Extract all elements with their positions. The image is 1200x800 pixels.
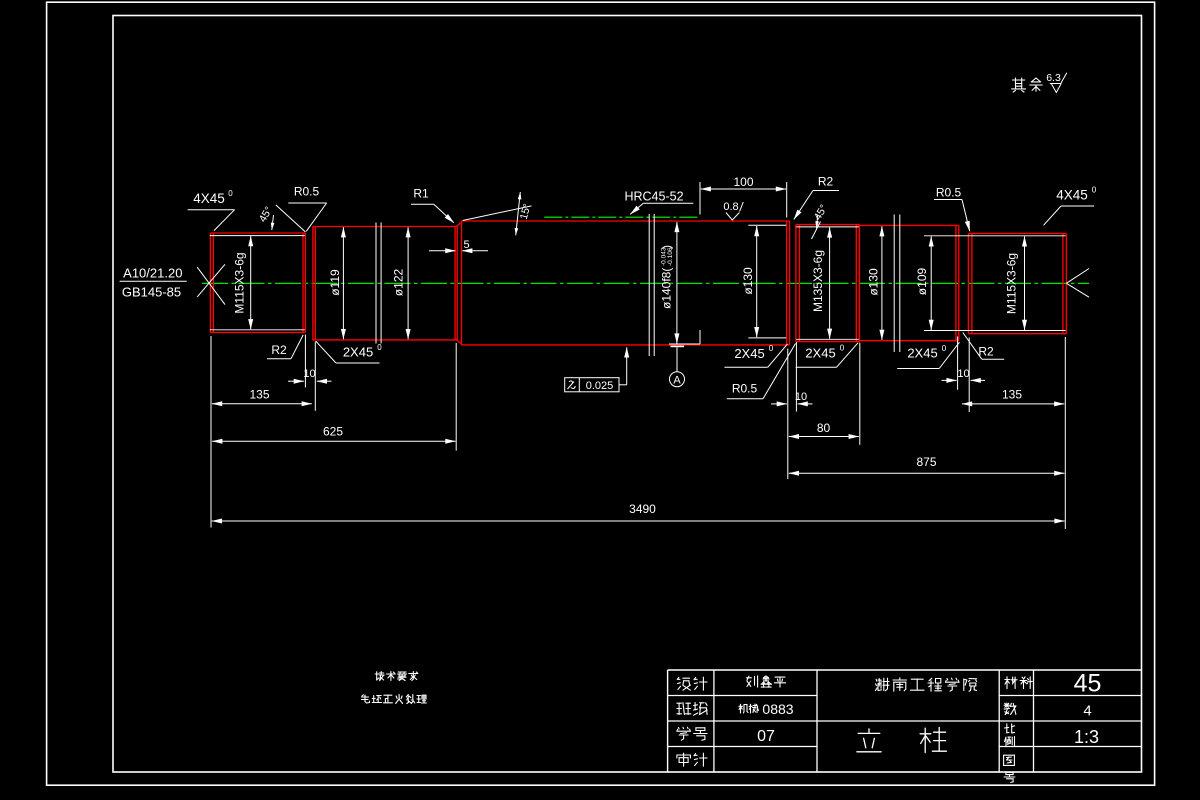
- svg-text:135: 135: [1002, 388, 1022, 402]
- dimension phi130 right: [881, 226, 883, 340]
- svg-text:R2: R2: [818, 175, 834, 189]
- svg-text:0: 0: [840, 344, 845, 353]
- dimension 10 right: [942, 379, 957, 381]
- dimension 80: [789, 436, 859, 438]
- svg-text:4X45: 4X45: [193, 191, 225, 206]
- svg-text:R0.5: R0.5: [294, 185, 320, 199]
- svg-text:80: 80: [817, 421, 831, 435]
- dimension 10 (M135 groove): [771, 403, 787, 405]
- dimension phi109: [930, 236, 932, 330]
- section: phi119/phi122: [312, 227, 314, 340]
- svg-text:0: 0: [942, 344, 947, 353]
- svg-text:5: 5: [463, 239, 469, 251]
- svg-text:M135X3-6g: M135X3-6g: [811, 250, 825, 312]
- svg-text:GB145-85: GB145-85: [122, 285, 181, 300]
- svg-text:HRC45-52: HRC45-52: [624, 190, 683, 204]
- school name: [875, 678, 889, 691]
- dimension M135X3-6g: [829, 227, 831, 338]
- dimension 135 left: [212, 403, 312, 405]
- svg-text:07: 07: [757, 728, 775, 745]
- svg-text:M115X3-6g: M115X3-6g: [233, 252, 247, 313]
- svg-text:ø140f8(: ø140f8(: [660, 268, 674, 309]
- svg-text:6.3: 6.3: [1046, 72, 1061, 84]
- 45 degree chamfer M135: [812, 222, 821, 240]
- svg-text:4X45: 4X45: [1056, 188, 1088, 203]
- general roughness symbol 其余 6.3: [1012, 78, 1026, 92]
- svg-text:0883: 0883: [762, 701, 793, 717]
- dimension M115X3-6g left: [250, 236, 252, 329]
- svg-text:R2: R2: [271, 343, 287, 357]
- break lines in phi140: [648, 214, 650, 356]
- svg-text:2X45: 2X45: [907, 346, 937, 361]
- svg-text:R0.5: R0.5: [732, 382, 758, 396]
- svg-text:ø130: ø130: [866, 268, 880, 296]
- section: thread M135X3-6g: [795, 225, 797, 342]
- dimension 100: [701, 188, 786, 190]
- section: right thread M115X3-6g: [967, 233, 969, 333]
- section: phi140 middle: [461, 221, 463, 345]
- svg-text:10: 10: [957, 368, 969, 380]
- svg-text:R1: R1: [413, 187, 429, 201]
- svg-text:R2: R2: [978, 345, 994, 359]
- title block row labels: [677, 678, 690, 691]
- designer names: [746, 676, 757, 687]
- svg-text:135: 135: [249, 388, 269, 402]
- dimension 3490: [212, 520, 1065, 522]
- dimension M115X3-6g right: [1024, 236, 1026, 330]
- svg-text:0: 0: [377, 343, 382, 352]
- dimension phi119 left: [342, 227, 344, 339]
- svg-text:M115X3-6g: M115X3-6g: [1005, 253, 1019, 314]
- svg-text:2X45: 2X45: [343, 345, 373, 360]
- datum A symbol: [699, 330, 701, 344]
- break lines in phi119/phi122: [375, 223, 377, 344]
- dimension phi122: [407, 227, 409, 339]
- section: left thread M115X3-6g: [209, 233, 211, 332]
- svg-text:10: 10: [795, 391, 807, 403]
- svg-text:2X45: 2X45: [734, 346, 764, 361]
- svg-text:10: 10: [303, 368, 315, 380]
- material cell: [1005, 677, 1017, 689]
- svg-text:): ): [660, 245, 674, 249]
- svg-text:R0.5: R0.5: [936, 186, 962, 200]
- svg-text:4: 4: [1083, 703, 1091, 720]
- dimension 5 (relief groove): [429, 250, 455, 252]
- part name 立柱: [857, 729, 881, 752]
- dimension phi140f8 with tolerance: [676, 222, 678, 344]
- section: phi130/phi119 right: [858, 225, 860, 340]
- svg-text:100: 100: [733, 175, 753, 189]
- svg-text:875: 875: [916, 455, 936, 469]
- dimension 875: [789, 472, 1065, 474]
- svg-text:0: 0: [1092, 186, 1097, 195]
- svg-text:0: 0: [228, 189, 233, 198]
- dimension phi130 (left of step): [748, 224, 786, 226]
- dimension 135 right: [962, 403, 1064, 405]
- svg-text:ø109: ø109: [915, 268, 929, 296]
- dimension 625: [212, 440, 455, 442]
- center hole arrow right end: [1066, 269, 1089, 284]
- thread minor diameter lines M115 left: [210, 235, 305, 237]
- svg-text:A: A: [673, 375, 681, 387]
- R1 fillet at phi140 left step: [457, 222, 462, 227]
- svg-text:-0.106: -0.106: [667, 247, 674, 266]
- svg-text:3490: 3490: [629, 502, 656, 516]
- svg-text:ø130: ø130: [741, 267, 755, 295]
- svg-text:0.025: 0.025: [586, 380, 614, 392]
- title block grid: [668, 669, 1142, 671]
- svg-text:2X45: 2X45: [805, 346, 835, 361]
- dimension 10 left: [288, 380, 304, 382]
- svg-text:0: 0: [769, 344, 774, 353]
- circular runout tolerance frame 0.025: [565, 378, 619, 392]
- extension lines: [210, 336, 212, 528]
- break lines in phi130 right: [893, 215, 895, 353]
- svg-text:0.8: 0.8: [723, 201, 738, 213]
- svg-text:1:3: 1:3: [1074, 727, 1099, 747]
- hardened zone line HRC45-52: [544, 216, 700, 218]
- 45 degree chamfer left: [276, 205, 306, 232]
- svg-text:ø119: ø119: [328, 269, 342, 296]
- technical notes: [375, 672, 384, 681]
- svg-text:45: 45: [1074, 670, 1102, 698]
- 15 degree slope annotation: [463, 206, 532, 221]
- thread minor diameter lines M115 right + phi109 extensions: [924, 235, 1066, 237]
- svg-text:ø122: ø122: [392, 269, 406, 297]
- svg-text:A10/21.20: A10/21.20: [123, 266, 182, 281]
- main centerline: [202, 282, 1089, 284]
- svg-text:625: 625: [323, 425, 343, 439]
